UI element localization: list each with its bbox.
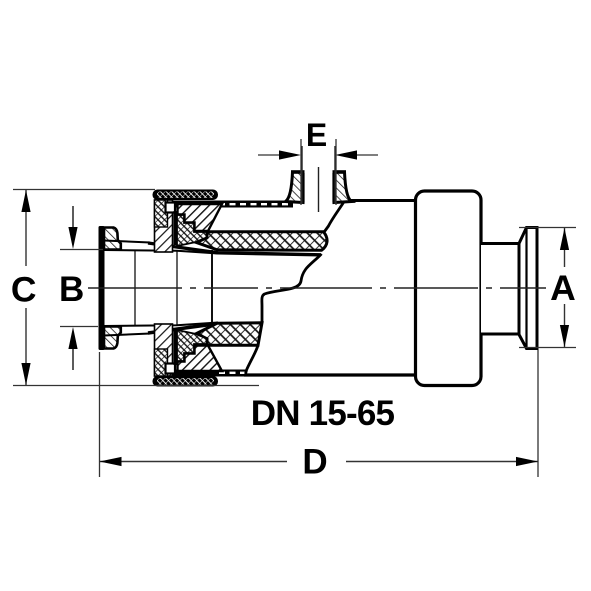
svg-text:C: C: [11, 270, 37, 310]
dim A ext top: [519, 227, 576, 229]
dim A ext bottom: [519, 347, 576, 349]
dim E ext line right: [335, 139, 337, 205]
dim A arrow bottom: [560, 325, 569, 347]
boss top edge left: [291, 170, 305, 174]
gasket lower: [177, 330, 207, 361]
gasket upper: [177, 215, 207, 246]
dim D line left: [100, 461, 288, 463]
hose band lower: [197, 323, 263, 346]
socket thin wall band lower: [163, 370, 247, 377]
hose band upper: [197, 232, 328, 251]
dim A line top: [564, 228, 566, 267]
svg-text:B: B: [59, 270, 84, 309]
dim B ext bottom: [60, 326, 98, 328]
dim E arrow right: [335, 150, 357, 159]
break line middle: [262, 254, 322, 322]
boss right wall: [334, 172, 352, 203]
tail cone line upper: [148, 243, 320, 255]
svg-text:DN 15-65: DN 15-65: [251, 394, 395, 433]
dim C ext bottom: [13, 385, 259, 387]
ferrule lower: [178, 346, 223, 372]
dim D arrow right: [516, 457, 538, 466]
nut cap top: [153, 190, 219, 201]
boss bore wall left: [301, 173, 304, 203]
dim E line right: [340, 154, 378, 156]
socket thin wall band upper: [166, 201, 293, 208]
dim C line bottom: [25, 308, 27, 385]
break line upper: [325, 203, 344, 232]
dim E arrow left: [279, 150, 301, 159]
dim E ext line left: [300, 139, 302, 205]
boss bore line left: [301, 146, 303, 204]
nut wall upper: [155, 200, 173, 252]
tail cone line lower: [148, 324, 218, 334]
socket top line right of boss: [345, 199, 416, 202]
bore construction line 1: [134, 250, 136, 326]
boss bore wall right: [332, 173, 335, 203]
tail bore line lower: [104, 323, 218, 327]
bore construction line 3: [211, 250, 213, 326]
break line lower: [246, 345, 259, 374]
boss top edge right: [333, 170, 347, 174]
svg-text:E: E: [306, 117, 327, 153]
dim C ext top: [13, 189, 155, 191]
ferrule upper: [178, 204, 223, 231]
dim B arrow top: [72, 206, 74, 240]
dim D arrow left: [100, 457, 122, 466]
hose tail flange bar: [99, 226, 105, 350]
end cap groove: [525, 228, 527, 349]
nut wall notch upper: [166, 203, 176, 213]
nut inner step line upper: [174, 211, 178, 245]
nut wall lower: [155, 324, 173, 376]
nut wall notch lower: [166, 364, 176, 374]
center line: [88, 287, 546, 289]
boss center line: [318, 167, 320, 212]
dim B arrow bottom: [72, 336, 74, 370]
dim E line left: [258, 154, 296, 156]
tail ledge line upper: [104, 241, 150, 243]
dim A arrow top: [560, 228, 569, 250]
boss left wall: [286, 172, 304, 203]
tail ledge line lower: [104, 334, 150, 336]
dim C arrow bottom: [21, 363, 30, 385]
bore construction line 2: [176, 250, 178, 326]
nut knurl patch lower: [155, 349, 168, 376]
neck right edge: [518, 244, 521, 335]
dim B ext top: [60, 249, 103, 251]
dim A line bottom: [564, 304, 566, 347]
dim D ext right: [537, 350, 539, 477]
hose tail flange hatch upper: [104, 228, 121, 250]
tail bore line upper: [104, 250, 218, 254]
boss bore line right: [334, 146, 336, 204]
socket bottom line: [244, 373, 416, 376]
dim C arrow top: [21, 190, 30, 212]
svg-text:D: D: [302, 443, 327, 482]
end cap: [519, 228, 537, 349]
dim D line right: [346, 461, 538, 463]
dim C line top: [25, 190, 27, 266]
hose tail flange hatch lower: [104, 327, 121, 349]
neck: [481, 244, 519, 335]
dim D ext left: [99, 352, 101, 477]
body big cylinder: [416, 191, 482, 386]
nut inner step line lower: [174, 331, 178, 365]
nut knurl patch upper: [155, 200, 168, 227]
svg-text:A: A: [550, 268, 576, 308]
nut cap bottom: [153, 376, 219, 387]
